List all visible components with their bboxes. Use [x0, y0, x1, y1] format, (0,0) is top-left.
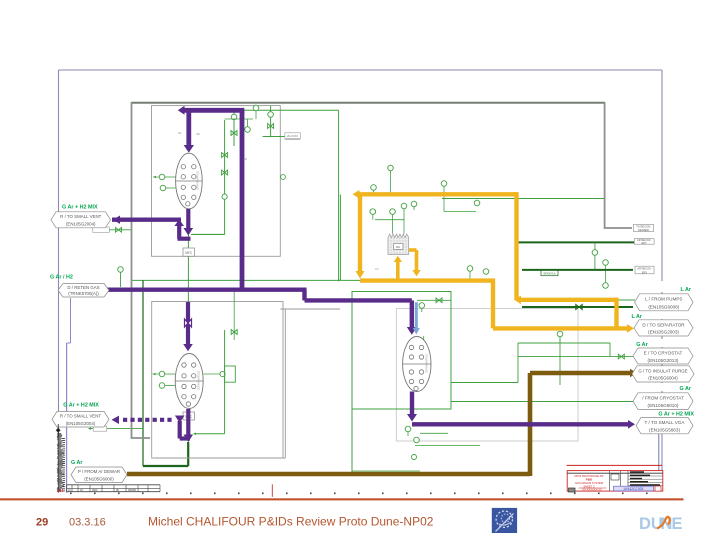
svg-text:CERN MANIFOLD: CERN MANIFOLD [197, 171, 200, 190]
svg-text:NP02 PROTODUNE-DP: NP02 PROTODUNE-DP [574, 474, 603, 478]
svg-text:G Ar + H2 MIX: G Ar + H2 MIX [62, 205, 98, 211]
svg-text:P / FROM Ar DEWAR: P / FROM Ar DEWAR [78, 469, 120, 474]
svg-text:ERY: ERY [642, 241, 648, 245]
svg-text:000000: 000000 [128, 489, 137, 492]
svg-text:(EN105G6000): (EN105G6000) [84, 476, 114, 481]
svg-text:AR RECOV-: AR RECOV- [637, 267, 651, 271]
svg-text:(EN105G2003): (EN105G2003) [648, 330, 679, 335]
svg-text:VE-XXXX: VE-XXXX [287, 134, 299, 138]
svg-text:(EN105G5663): (EN105G5663) [649, 428, 680, 433]
svg-text:L Ar: L Ar [632, 314, 643, 320]
svg-text:0000: 0000 [92, 489, 98, 492]
svg-text:ERY: ERY [642, 270, 648, 274]
svg-text:D / RETEN GAS: D / RETEN GAS [67, 285, 99, 290]
svg-text:P&ID: P&ID [586, 478, 592, 482]
svg-text:DENSER: DENSER [638, 228, 649, 232]
svg-text:G Ar: G Ar [680, 386, 692, 392]
svg-text:MFC: MFC [185, 251, 193, 255]
svg-text:G Ar + H2 MIX: G Ar + H2 MIX [63, 402, 99, 408]
svg-text:29: 29 [36, 517, 48, 529]
svg-text:G Ar / H2: G Ar / H2 [50, 275, 73, 281]
svg-text:T / TO SMALL VGA: T / TO SMALL VGA [645, 420, 686, 425]
svg-text:L Ar: L Ar [681, 287, 692, 293]
svg-text:Michel CHALIFOUR P&IDs Review: Michel CHALIFOUR P&IDs Review Proto Dune… [148, 515, 434, 529]
svg-text:(EN105G6008): (EN105G6008) [648, 304, 679, 309]
svg-text:L / FROM PUMPS: L / FROM PUMPS [645, 297, 682, 302]
svg-text:AR: AR [244, 157, 248, 161]
svg-text:(EN105G2004): (EN105G2004) [66, 222, 96, 227]
svg-text:G Ar + H2 MIX: G Ar + H2 MIX [658, 412, 694, 418]
svg-text:/ FROM CRYOSTAT: / FROM CRYOSTAT [642, 395, 684, 400]
svg-text:R / TO SMALL VENT: R / TO SMALL VENT [60, 414, 101, 419]
svg-text:CERN MANIFOLD: CERN MANIFOLD [198, 371, 201, 390]
svg-text:VE: VE [196, 132, 200, 136]
svg-text:DU: DU [639, 515, 663, 533]
svg-text:(TRNK5700(A)): (TRNK5700(A)) [68, 291, 99, 296]
svg-text:(EN105G3004): (EN105G3004) [66, 421, 96, 426]
svg-text:G Ar: G Ar [71, 460, 83, 466]
svg-text:SPXXX-LA: SPXXX-LA [543, 273, 556, 276]
svg-text:G Ar: G Ar [636, 342, 648, 348]
svg-text:CV: CV [375, 267, 379, 271]
svg-text:(EN105G6004): (EN105G6004) [648, 376, 678, 381]
svg-text:B4: B4 [58, 488, 64, 493]
svg-text:TO RECON-: TO RECON- [636, 225, 651, 229]
svg-text:(EN105G6010): (EN105G6010) [648, 403, 679, 408]
svg-text:E: E [672, 515, 683, 533]
svg-text:R / TO SMALL VENT: R / TO SMALL VENT [60, 214, 101, 219]
svg-text:E / TO CRYOSTAT: E / TO CRYOSTAT [644, 350, 683, 355]
svg-text:G / TO INSULAT PURGE: G / TO INSULAT PURGE [638, 368, 687, 373]
svg-text:D / TO SEPARATOR: D / TO SEPARATOR [642, 322, 685, 327]
svg-text:RH: RH [396, 245, 400, 249]
svg-text:CERN MANIFOLD: CERN MANIFOLD [426, 354, 429, 373]
svg-text:LK612CC003: LK612CC003 [624, 487, 644, 491]
svg-text:N2: N2 [178, 131, 182, 135]
svg-text:(EN105G2013): (EN105G2013) [648, 358, 679, 363]
svg-text:03.3.16: 03.3.16 [69, 517, 106, 529]
